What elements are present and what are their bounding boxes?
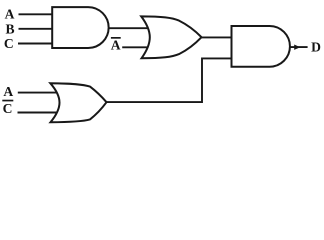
- svg-text:B: B: [5, 21, 14, 36]
- svg-text:A: A: [3, 84, 13, 99]
- svg-text:C: C: [3, 101, 13, 116]
- svg-text:D: D: [311, 39, 321, 54]
- svg-text:C: C: [4, 36, 14, 51]
- svg-text:A: A: [111, 37, 121, 52]
- svg-text:A: A: [5, 6, 15, 21]
